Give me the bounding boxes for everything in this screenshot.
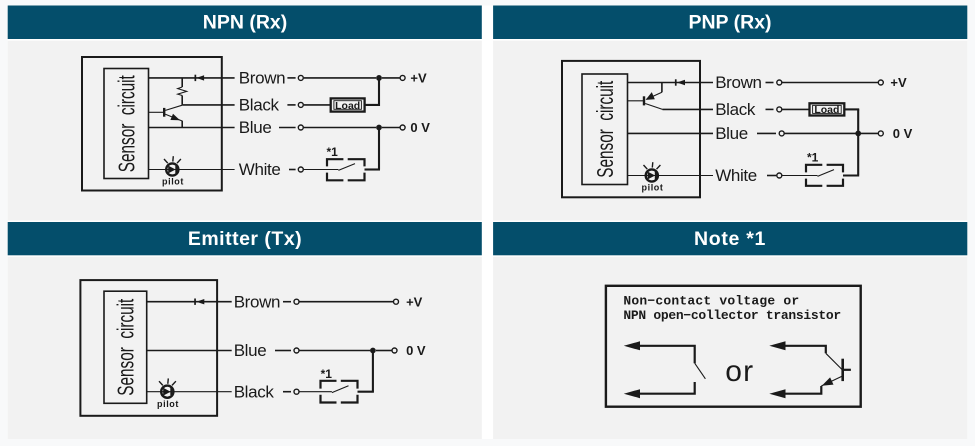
svg-text:*1: *1: [321, 367, 333, 381]
svg-text:NPN (Rx): NPN (Rx): [203, 12, 288, 34]
svg-text:+V: +V: [406, 294, 423, 309]
svg-text:Blue: Blue: [715, 124, 748, 143]
svg-text:0 V: 0 V: [410, 120, 430, 135]
svg-text:Sensor circuit: Sensor circuit: [114, 75, 140, 172]
svg-text:NPN open−collector transistor: NPN open−collector transistor: [623, 308, 841, 323]
svg-text:Brown: Brown: [239, 69, 285, 88]
svg-text:pilot: pilot: [157, 399, 179, 409]
svg-text:Brown: Brown: [715, 73, 761, 92]
svg-text:pilot: pilot: [162, 177, 184, 187]
svg-text:White: White: [239, 160, 281, 179]
svg-text:*1: *1: [807, 151, 819, 165]
svg-text:Brown: Brown: [234, 292, 280, 311]
svg-text:White: White: [715, 166, 757, 185]
svg-text:Non−contact voltage or: Non−contact voltage or: [623, 293, 799, 308]
svg-text:Black: Black: [234, 382, 275, 401]
svg-text:0 V: 0 V: [893, 126, 913, 141]
svg-text:Sensor circuit: Sensor circuit: [592, 80, 618, 177]
svg-text:Black: Black: [715, 100, 756, 119]
svg-text:pilot: pilot: [642, 183, 664, 193]
svg-text:Load: Load: [814, 104, 839, 116]
svg-text:PNP (Rx): PNP (Rx): [688, 12, 771, 34]
svg-text:Load: Load: [335, 100, 360, 112]
svg-text:+V: +V: [410, 71, 427, 86]
svg-text:*1: *1: [327, 145, 339, 159]
svg-text:Emitter (Tx): Emitter (Tx): [188, 228, 302, 250]
svg-text:+V: +V: [890, 75, 907, 90]
svg-text:0 V: 0 V: [406, 343, 426, 358]
svg-text:Blue: Blue: [234, 341, 267, 360]
svg-text:or: or: [725, 355, 754, 388]
svg-text:Sensor circuit: Sensor circuit: [113, 298, 139, 395]
svg-text:Note *1: Note *1: [694, 228, 766, 250]
svg-text:Black: Black: [239, 96, 280, 115]
svg-text:Blue: Blue: [239, 118, 272, 137]
